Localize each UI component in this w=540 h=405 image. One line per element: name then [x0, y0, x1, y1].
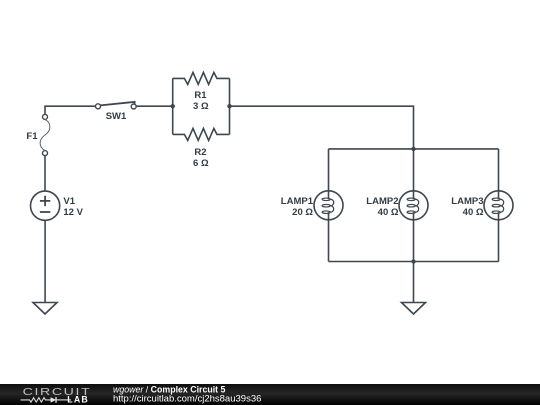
fuse F1 — [40, 114, 50, 155]
switch SW1 right terminal — [131, 104, 136, 109]
node: bottom rail junction dot — [411, 259, 415, 263]
resistor block left rail — [172, 78, 174, 134]
ground right — [402, 303, 426, 315]
wire: lamp bottom rail — [329, 261, 499, 263]
wire: lamp1 top stem — [328, 149, 330, 191]
resistor block right rail — [229, 78, 231, 134]
voltage source V1 — [30, 191, 59, 220]
svg-text:F1: F1 — [26, 131, 38, 142]
wire: top-left corner from fuse to switch — [45, 106, 96, 114]
svg-text:R1: R1 — [194, 90, 207, 101]
svg-text:40 Ω: 40 Ω — [378, 207, 399, 218]
svg-text:LAMP2: LAMP2 — [366, 196, 398, 207]
wire: resistor block to lamps feed — [230, 106, 414, 149]
svg-text:12 V: 12 V — [63, 207, 83, 218]
logo CIRCUIT text — [23, 386, 92, 398]
resistor R1 — [173, 72, 230, 84]
svg-text:LAMP1: LAMP1 — [281, 196, 314, 207]
svg-text:LAMP3: LAMP3 — [451, 196, 483, 207]
wire: lamp2 top stem — [413, 149, 415, 191]
wire: lamp3 bottom stem — [498, 220, 500, 262]
svg-text:3 Ω: 3 Ω — [193, 101, 209, 112]
svg-text:6 Ω: 6 Ω — [193, 158, 209, 169]
resistor R2 — [173, 128, 230, 140]
footer bar — [0, 384, 540, 405]
svg-text:http://circuitlab.com/cj2hs8au: http://circuitlab.com/cj2hs8au39s36 — [113, 394, 261, 405]
logo squiggle wire with resistor and diode — [21, 397, 72, 403]
wire: source V1 to ground — [44, 220, 46, 302]
lamp LAMP1 — [314, 191, 343, 220]
wire: lamp3 top stem — [498, 149, 500, 191]
ground left — [33, 303, 57, 315]
wire: lamp1 bottom stem — [328, 220, 330, 262]
wire: fuse to source V1 — [44, 156, 46, 191]
svg-text:R2: R2 — [194, 147, 206, 158]
switch SW1 lever — [100, 102, 134, 106]
node: right junction dot — [227, 104, 231, 108]
node: top rail junction dot — [411, 147, 415, 151]
lamp LAMP3 — [484, 191, 513, 220]
wire: lamp top rail — [329, 148, 499, 150]
wire: bottom rail to ground — [413, 262, 415, 303]
node: left junction dot — [171, 104, 175, 108]
svg-text:40 Ω: 40 Ω — [463, 207, 484, 218]
wire: lamp2 bottom stem — [413, 220, 415, 262]
lamp LAMP2 — [399, 191, 428, 220]
svg-text:SW1: SW1 — [106, 111, 127, 122]
wire: switch to resistor block — [136, 105, 171, 107]
svg-text:V1: V1 — [63, 196, 75, 207]
svg-text:20 Ω: 20 Ω — [292, 207, 313, 218]
svg-text:LAB: LAB — [67, 394, 89, 404]
switch SW1 left terminal — [96, 104, 101, 109]
